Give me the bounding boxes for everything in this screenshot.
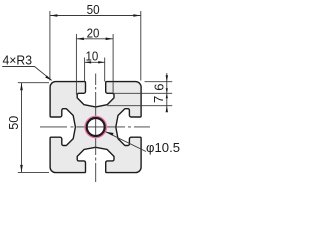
svg-text:φ10.5: φ10.5	[146, 140, 180, 155]
dimension 50 left	[18, 83, 49, 173]
svg-text:10: 10	[86, 49, 99, 64]
dimension 6 right	[108, 73, 173, 111]
svg-text:50: 50	[6, 116, 21, 130]
dimension 20	[76, 34, 113, 95]
svg-text:20: 20	[87, 25, 100, 40]
svg-text:7: 7	[151, 96, 166, 103]
extrusion profile cross-section	[50, 82, 141, 173]
label 4xR3 with leader	[2, 67, 51, 81]
dimension 50 top	[50, 11, 141, 81]
pink highlight ring	[86, 117, 106, 137]
svg-text:50: 50	[87, 2, 100, 17]
label phi10.5 with leader	[106, 132, 147, 152]
centerline vertical	[95, 74, 97, 183]
dimension 10	[85, 58, 105, 82]
hole outline circle	[87, 118, 105, 136]
svg-text:4×R3: 4×R3	[3, 53, 33, 68]
svg-text:6: 6	[151, 84, 166, 91]
center hole bore	[87, 118, 105, 136]
centerline horizontal	[40, 126, 150, 128]
